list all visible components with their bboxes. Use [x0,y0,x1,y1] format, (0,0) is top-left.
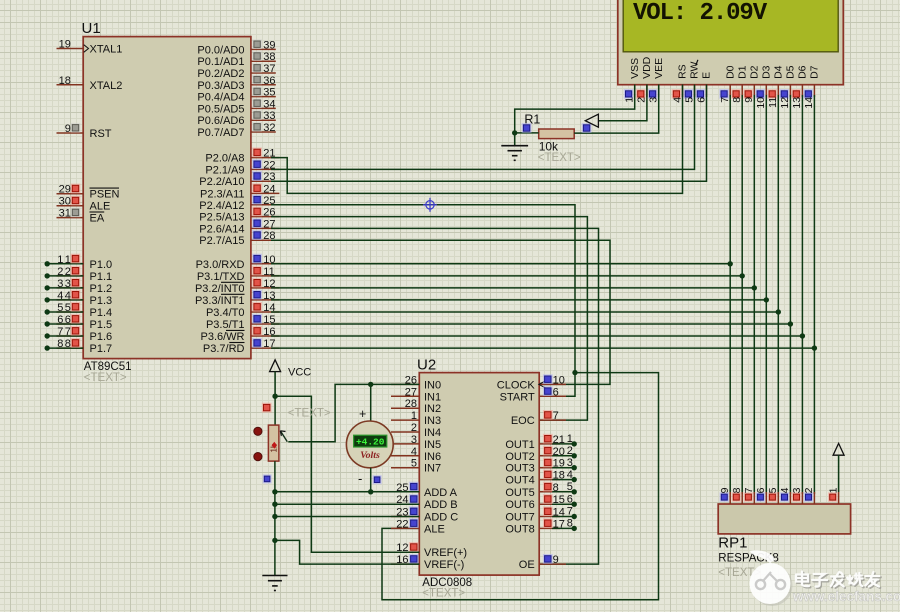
U1 pin 15 P3.5 stub [251,323,280,325]
LCD pin 13 stub [801,85,803,98]
U1 pin 39 state box [252,39,262,49]
wire net D4 horizontal (U1 P3.4) [271,311,778,313]
svg-text:7: 7 [57,326,63,338]
svg-text:P2.5/A13: P2.5/A13 [199,212,244,224]
LCD pin 14 state box [804,89,814,99]
wire net D6 vertical (LCD D6 to RP1) [801,95,803,494]
U1 pin 28 P2.7 stub [251,239,280,241]
U1 pin 12 state box [252,278,262,288]
RP1 pin 6 stub [765,492,767,504]
svg-text:2: 2 [411,422,417,434]
U1 pin 30 stub [57,205,84,207]
wire net D7 horizontal (U1 P3.7) [271,347,814,349]
RP1 pin 2 stub [813,492,815,504]
U2 pin 28 IN2 stub [391,407,419,409]
svg-text:P2.7/A15: P2.7/A15 [199,235,244,247]
node net 6 junction dot [45,321,50,326]
svg-text:OUT4: OUT4 [505,475,534,487]
wire net D3 vertical (LCD D3 to RP1) [765,95,767,494]
wire net D7 vertical (LCD D7 to RP1) [813,95,815,494]
svg-text:OUT8: OUT8 [505,523,534,535]
svg-text:D3: D3 [761,65,773,79]
LCD pin 12 state box [780,89,790,99]
wire net 6 to P1.5 [47,323,83,325]
RP1 pin 8 state box [732,492,741,501]
svg-text:14: 14 [553,507,565,519]
svg-text:D6: D6 [797,65,809,79]
wire net 3 to P1.2 [47,287,83,289]
node voltmeter minus junction dot [368,489,373,494]
U2 pin 8 OUT5 stub [539,491,560,493]
svg-text:P3.4/T0: P3.4/T0 [206,307,245,319]
U1 pin 24 P2.3 stub [251,192,280,194]
U1 pin 10 P3.0 stub [251,263,280,265]
svg-text:P0.1/AD1: P0.1/AD1 [197,56,244,68]
U1 pin 11 state box [252,266,262,276]
RP1 pin 4 stub [789,492,791,504]
U1 pin 9 state box [71,123,81,133]
U1 pin 37 P0.2 stub [251,72,276,74]
U2 pin 10 state box [543,374,553,384]
wire net VSS [515,85,635,133]
svg-text:10: 10 [755,97,767,109]
svg-text:ADD A: ADD A [424,487,458,499]
U1 pin 38 state box [252,51,262,61]
svg-text:IN0: IN0 [424,379,441,391]
svg-text:P2.0/A8: P2.0/A8 [205,153,244,165]
svg-text:5: 5 [767,487,779,493]
wire net 4 to P1.3 [47,299,83,301]
U1 P3.6/WR overline [226,329,245,331]
RP1 pin 4 state box [780,492,789,501]
svg-text:RP1: RP1 [718,535,747,552]
svg-text:8: 8 [57,338,63,350]
RP1 pin 3 stub [801,492,803,504]
wire net 5 to P1.4 [47,311,83,313]
svg-text:39: 39 [263,39,275,51]
resistor R1 body [539,129,575,139]
LCD pin 2 stub [646,85,648,98]
svg-text:+4.20: +4.20 [356,437,385,448]
svg-text:9: 9 [743,97,755,103]
node D7/P3.7 junction dot [812,345,817,350]
R1 left state box [522,123,532,133]
svg-text:EOC: EOC [511,415,535,427]
U1 pin 11 P3.1 stub [251,275,280,277]
wire net D3 horizontal (U1 P3.3) [271,299,766,301]
U1 pin 15 state box [252,314,262,324]
node net 1 junction dot [45,261,50,266]
RV1 wiper position marker [272,442,277,449]
U1 pin 18 XTAL2 stub [57,84,84,86]
LCD pin 6 state box [696,89,706,99]
U2 pin 6 START stub [539,395,566,397]
wire net D2 horizontal (U1 P3.2) [271,287,754,289]
U2 pin 25 ADD A stub [391,491,419,493]
svg-text:5: 5 [57,302,63,314]
wire net ADC-START/ALE (P2.4) [271,205,575,396]
U1 pin 2 state box [71,266,81,276]
U1 pin 26 state box [252,207,262,217]
U1 pin 4 P1.3 stub [57,299,84,301]
U1 pin 23 P2.2 stub [251,180,280,182]
wire VCC to RV1 top [274,396,276,425]
U1 pin 3 P1.2 stub [57,287,84,289]
svg-text:5: 5 [65,302,71,314]
wire net E (P2.2 to LCD E) [271,85,707,182]
power arrow at RP1 pin 1 [833,443,844,455]
svg-text:P1.6: P1.6 [90,331,113,343]
U2 pin 14 OUT7 stub [539,516,560,518]
U2 pin 25 state box [409,482,419,492]
svg-text:5: 5 [567,481,573,493]
U2 pin 16 state box [409,554,419,564]
svg-text:7: 7 [553,410,559,422]
U1 pin 9 RST stub [57,132,84,134]
node net 2 dot at OUT2 [572,453,577,458]
wire net D5 vertical (LCD D5 to RP1) [789,95,791,494]
node D1/P3.1 junction dot [740,273,745,278]
LCD pin 4 state box [672,89,682,99]
RP1 pin 2 state box [804,492,813,501]
U1 pin 32 state box [252,122,262,132]
U1 pin 25 P2.4 stub [251,204,280,206]
svg-text:U1: U1 [82,20,101,37]
svg-text:2: 2 [567,445,573,457]
wire net D2 vertical (LCD D2 to RP1) [753,95,755,494]
svg-text:38: 38 [263,51,275,63]
svg-text:VEE: VEE [653,58,665,79]
U2 pin 8 state box [543,482,553,492]
svg-text:8: 8 [731,487,743,493]
svg-text:15: 15 [553,494,565,506]
svg-text:D7: D7 [809,65,821,79]
wire net 8 at OUT8 [552,527,574,529]
U1 XTAL1 clock mark [84,45,89,53]
svg-text:1: 1 [827,487,839,493]
U1 P3.3/INT1 overline [221,293,245,295]
LCD module body [618,0,844,85]
svg-text:1: 1 [567,433,573,445]
LCD pin 8 stub [741,85,743,98]
node net 3 junction dot [45,285,50,290]
svg-text:U2: U2 [417,357,436,374]
U1 pin 8 state box [71,338,81,348]
svg-text:XTAL2: XTAL2 [90,80,123,92]
wire net 1 to P1.0 [47,263,83,265]
ground symbol at R1 [514,133,516,146]
svg-text:9: 9 [65,123,71,135]
U1 pin 8 P1.7 stub [57,347,84,349]
wire net 3 at OUT3 [552,467,574,469]
U1 pin 13 P3.3 stub [251,299,280,301]
U2 pin 15 OUT6 stub [539,503,560,505]
svg-text:13: 13 [791,97,803,109]
svg-text:<TEXT>: <TEXT> [422,588,465,600]
U2 pin 9 state box [543,554,553,564]
wire net 2 at OUT2 [552,455,574,457]
svg-text:OE: OE [519,559,535,571]
wire net 1 at OUT1 [552,443,574,445]
svg-text:D0: D0 [724,65,736,79]
wire RV1 wiper to U2 IN0 [288,384,419,441]
svg-text:XTAL1: XTAL1 [90,44,123,56]
svg-text:D2: D2 [749,65,761,79]
svg-text:D4: D4 [773,65,785,79]
svg-text:7: 7 [567,506,573,518]
RP1 pin 9 state box [720,492,729,501]
U2 pin 10 CLOCK stub [539,383,566,385]
wire net 4 at OUT4 [552,479,574,481]
wire RV1 bottom to ground [274,461,276,575]
node net 3 dot at OUT3 [572,465,577,470]
LCD pin 9 stub [753,85,755,98]
U1 pin 16 P3.6 stub [251,335,280,337]
svg-text:1: 1 [65,254,71,266]
node D5/P3.5 junction dot [788,321,793,326]
U2 pin 18 state box [543,470,553,480]
svg-text:2: 2 [65,266,71,278]
U1 pin 27 P2.6 stub [251,227,280,229]
U2 pin 20 state box [543,446,553,456]
svg-text:3: 3 [411,434,417,446]
U1 pin 3 state box [71,278,81,288]
RP1 pin 8 stub [741,492,743,504]
svg-text:P0.6/AD6: P0.6/AD6 [197,115,244,127]
U2 pin 17 OUT8 stub [539,527,560,529]
svg-text:P1.4: P1.4 [90,307,113,319]
svg-text:www.elecfans.com: www.elecfans.com [792,589,900,604]
U2 pin 24 state box [409,494,419,504]
RP1 pin 6 state box [756,492,765,501]
U1 pin 36 P0.3 stub [251,84,276,86]
node D0/P3.0 junction dot [728,261,733,266]
svg-text:RW: RW [689,62,701,79]
wire net ADD A [275,491,419,493]
wire net ADC-EOC (P2.5) [271,217,587,421]
ground symbol below RV1 [262,575,287,577]
wire net D0 horizontal (U1 P3.0) [271,263,730,265]
svg-text:P3.6/WR: P3.6/WR [200,331,244,343]
U1 pin 35 P0.4 stub [251,96,276,98]
U1 pin 22 P2.1 stub [251,168,280,170]
svg-text:18: 18 [59,75,71,87]
U2 pin 22 state box [409,518,419,528]
wire voltmeter minus [370,468,372,492]
U1 pin 1 P1.0 stub [57,263,84,265]
svg-text:IN3: IN3 [424,415,441,427]
wire net 7 to P1.6 [47,335,83,337]
U2 pin 12 VREF(+) stub [391,551,419,553]
U1 pin 29 state box [71,184,81,194]
svg-text:OUT3: OUT3 [505,463,534,475]
wire VCC to VREF(+) [275,396,419,552]
svg-text:8: 8 [567,518,573,530]
svg-text:3: 3 [791,487,803,493]
RV1 terminal marker bottom [254,453,262,461]
R1 left wire [515,132,539,134]
U2 pin 12 state box [409,542,419,552]
svg-text:P3.2/INT0: P3.2/INT0 [195,283,245,295]
U2 pin 19 OUT3 stub [539,467,560,469]
svg-text:P2.3/A11: P2.3/A11 [200,188,244,200]
svg-text:P3.3/INT1: P3.3/INT1 [195,295,245,307]
node ADD B junction dot [272,502,277,507]
node ADD A junction dot [272,489,277,494]
svg-text:3: 3 [57,278,63,290]
svg-text:31: 31 [59,208,71,220]
LCD pin 13 state box [792,89,802,99]
node ADD C junction dot [272,514,277,519]
svg-text:2: 2 [803,487,815,493]
LCD pin 6 stub [706,85,708,98]
LCD pin 3 stub [658,85,660,98]
svg-text:<TEXT>: <TEXT> [288,408,331,420]
svg-text:P1.7: P1.7 [90,343,113,355]
LCD pin 10 state box [755,89,765,99]
U2 pin 23 ADD C stub [391,516,419,518]
node D6/P3.6 junction dot [800,333,805,338]
U1 pin 22 state box [252,159,262,169]
U1 EA overline [90,211,105,213]
svg-text:P2.4/A12: P2.4/A12 [199,200,244,212]
svg-text:PSEN: PSEN [90,189,120,201]
U2 pin 22 ALE stub [391,527,419,529]
RP1 pin 3 state box [792,492,801,501]
U2 pin 2 IN4 stub [391,431,419,433]
wire net D4 vertical (LCD D4 to RP1) [777,95,779,494]
LCD pin 9 state box [743,89,753,99]
U1 pin 12 P3.2 stub [251,287,280,289]
svg-text:4: 4 [57,290,63,302]
U2 pin 18 OUT4 stub [539,479,560,481]
wire net RW (P2.1 to LCD RW) [271,85,695,170]
U1 pin 23 state box [252,171,262,181]
svg-text:P0.4/AD4: P0.4/AD4 [197,92,244,104]
svg-text:8: 8 [731,97,743,103]
U1 pin 28 state box [252,230,262,240]
wire net 2 to P1.1 [47,275,83,277]
U2 pin 27 IN1 stub [391,395,419,397]
node net 4 junction dot [45,297,50,302]
U1 pin 21 P2.0 stub [251,157,280,159]
LCD pin 11 state box [767,89,777,99]
U1 pin 16 state box [252,326,262,336]
node net 7 dot at OUT7 [572,514,577,519]
svg-text:IN1: IN1 [424,391,441,403]
svg-text:3: 3 [567,457,573,469]
svg-text:OUT6: OUT6 [505,499,534,511]
svg-text:VCC: VCC [288,366,311,378]
node net 2 junction dot [45,273,50,278]
svg-text:<TEXT>: <TEXT> [538,152,581,164]
svg-text:33: 33 [263,110,275,122]
wire net ADD C [275,516,419,518]
wire net VDD [598,85,647,121]
U1 pin 6 P1.5 stub [57,323,84,325]
U1 pin 14 state box [252,302,262,312]
RP1 pin 7 stub [753,492,755,504]
U1 pin 37 state box [252,63,262,73]
svg-text:3: 3 [65,278,71,290]
LCD pin 1 stub [634,85,636,98]
svg-text:18: 18 [553,470,565,482]
svg-text:P0.3/AD3: P0.3/AD3 [197,80,244,92]
svg-text:P1.2: P1.2 [90,283,113,295]
U1 pin 1 state box [71,254,81,264]
svg-text:P1.0: P1.0 [90,259,113,271]
watermark logo circle [750,550,793,606]
U1 pin 36 state box [252,75,262,85]
R1 right wire (net VEE) [574,85,659,134]
U1 pin 32 P0.7 stub [251,131,276,133]
U1 pin 17 state box [252,338,262,348]
U1 pin 4 state box [71,290,81,300]
U2 pin 21 state box [543,434,553,444]
U2 pin 7 EOC stub [539,419,566,421]
svg-text:P1.1: P1.1 [90,271,113,283]
LCD pin 4 stub [682,85,684,98]
U1 pin 38 P0.1 stub [251,60,276,62]
svg-text:OUT7: OUT7 [505,512,534,524]
svg-text:19: 19 [553,458,565,470]
LCD pin 7 state box [719,89,729,99]
svg-text:22: 22 [396,518,408,530]
U2 pin 17 state box [543,518,553,528]
svg-text:21: 21 [553,434,565,446]
node net 8 junction dot [45,345,50,350]
svg-text:1: 1 [57,254,63,266]
U1 pin 25 state box [252,195,262,205]
U1 pin 21 state box [252,148,262,158]
LCD pin 14 stub [813,85,815,98]
node VREF(-) junction dot [272,538,277,543]
svg-text:CLOCK: CLOCK [497,379,536,391]
svg-text:2: 2 [57,266,63,278]
svg-text:Volts: Volts [360,450,380,461]
wire net D0 vertical (LCD D0 to RP1) [729,95,731,494]
svg-text:6: 6 [553,386,559,398]
svg-text:P1.5: P1.5 [90,319,113,331]
svg-text:9: 9 [553,554,559,566]
U1 P3.7/RD overline [229,342,244,344]
node net 5 junction dot [45,309,50,314]
RP1 pin 5 state box [768,492,777,501]
svg-text:1: 1 [624,97,636,103]
LCD pin 8 state box [731,89,741,99]
U1 pin 24 state box [252,183,262,193]
microcontroller U1 AT89C51 body [83,37,251,359]
wire voltmeter plus [370,384,372,421]
U1 PSEN overline [90,187,120,189]
voltmeter display [354,435,387,447]
svg-text:IN7: IN7 [424,463,441,475]
svg-text:6: 6 [57,314,63,326]
U1 pin 5 state box [71,302,81,312]
voltmeter minus state box [373,475,382,484]
U1 pin 31 state box [71,208,81,218]
U2 pin 26 IN0 stub [391,383,419,385]
wire net 8 to P1.7 [47,347,83,349]
LCD pin 10 stub [765,85,767,98]
svg-text:7: 7 [743,487,755,493]
svg-text:ADD B: ADD B [424,499,458,511]
svg-text:7: 7 [719,97,731,103]
node net 8 dot at OUT8 [572,526,577,531]
svg-text:P0.5/AD5: P0.5/AD5 [197,103,244,115]
U1 pin 34 P0.5 stub [251,107,276,109]
U1 pin 5 P1.4 stub [57,311,84,313]
